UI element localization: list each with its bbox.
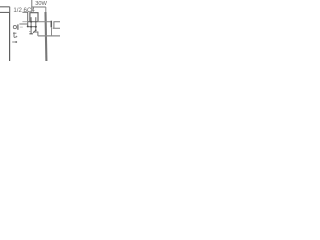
capacitor C2 small tick [29,31,31,33]
junction dot at lead and lower horizontal [30,26,32,28]
junction dot at grid wire and lower horizontal [27,25,29,27]
wire: from C3 down to bottom rail [51,27,53,36]
terminal blob [15,41,17,43]
wire: from C1 plate to grid node [19,23,27,25]
label: small dot mark [16,36,18,38]
junction dot at cathode bend [35,29,37,31]
wire: plate row horizontal (tube section) [28,21,39,23]
label: value mark (t-shape) [13,32,16,37]
junction dot at cathode and lower horizontal [35,26,37,28]
wire: bottom rail to right edge [38,35,60,37]
capacitor C3 solid plate [50,21,52,28]
wire: top horizontal from node to R1 [32,6,46,8]
wire: faint horizontal at plate row [22,21,27,23]
junction dot at plate row [30,21,32,23]
wire: horizontal then corner down to rail [33,32,38,36]
svg-text:30W: 30W [35,1,47,7]
input terminal circle [13,26,16,29]
capacitor C1 plate [17,24,19,29]
wire: plate row horizontal to C3 (lighter) [38,21,50,23]
faint ghost dash below C1 wire [20,26,23,28]
wire: vertical from top edge into tube V1 [31,0,33,13]
cathode diagonal stroke [33,30,36,33]
tube V1 envelope [30,13,38,22]
tube V1 cathode lead (right) [35,17,37,30]
resistor R1 body (thick vertical bar) [44,12,47,61]
tube V1 element lead (left, down to cap plate) [30,17,32,33]
wire: grid lead from label area to C2 [22,12,27,26]
wire: down from top horizontal into R1 [45,7,47,13]
transformer T1 box (cut off at left edge) [0,7,10,13]
capacitor C2 bottom plate [29,33,33,35]
wire: left bus from T1 down to bottom edge [9,12,11,61]
wire stub with terminal blob [12,41,16,43]
junction dot at cathode lead and plate row [35,21,37,23]
wire: lower horizontal from grid node to cathode [28,26,36,28]
capacitor C3 hollow plate (cut off at right edge) [53,22,60,29]
